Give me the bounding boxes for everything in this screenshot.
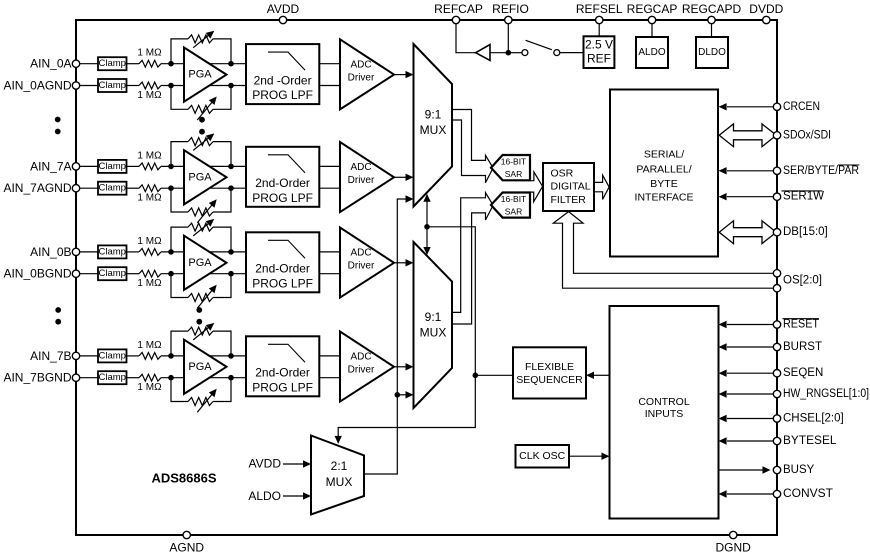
channel ellipsis dot	[199, 129, 205, 135]
junction PGA in+ ch A0	[168, 61, 174, 67]
pin DB[15:0]	[719, 221, 828, 244]
wire PGA input+ ch B0	[161, 251, 247, 253]
pin SEQEN	[719, 367, 824, 379]
wire AVDD to 2:1 MUX	[283, 460, 311, 467]
junction PGA in+ ch A7	[168, 164, 174, 170]
block FLEXIBLE SEQUENCER	[513, 347, 586, 398]
svg-text:1 MΩ: 1 MΩ	[137, 236, 162, 247]
svg-text:2nd-Order: 2nd-Order	[255, 366, 310, 380]
svg-text:16-BIT: 16-BIT	[501, 157, 527, 167]
svg-text:OS[2:0]: OS[2:0]	[783, 275, 822, 287]
svg-text:CONTROL: CONTROL	[638, 396, 689, 408]
svg-text:PGA: PGA	[188, 69, 212, 81]
variable gain arrow (bottom feedback) ch A7	[197, 199, 216, 223]
svg-text:1 MΩ: 1 MΩ	[137, 90, 162, 101]
wire inter-MUX select (double arrow)	[423, 194, 430, 255]
svg-text:CRCEN: CRCEN	[783, 101, 820, 113]
amplifier ADC Driver ch B7	[340, 332, 394, 402]
svg-text:2.5 V: 2.5 V	[585, 38, 613, 52]
svg-text:ADS8686S: ADS8686S	[151, 471, 216, 486]
svg-text:2:1: 2:1	[331, 459, 348, 473]
wire LPF to ADC driver + ch B0	[319, 251, 341, 253]
variable gain arrow (top feedback) ch A0	[193, 31, 214, 48]
svg-text:BYTESEL: BYTESEL	[783, 435, 837, 447]
svg-text:FLEXIBLE: FLEXIBLE	[525, 361, 574, 373]
amplifier ADC Driver ch A0	[340, 39, 394, 109]
junction PGA out- ch B0	[228, 271, 234, 277]
channel ellipsis dot	[196, 319, 202, 325]
svg-text:SAR: SAR	[505, 206, 522, 216]
svg-text:Clamp: Clamp	[98, 350, 125, 361]
svg-text:SEQUENCER: SEQUENCER	[516, 374, 583, 386]
svg-text:2nd-Order: 2nd-Order	[255, 176, 310, 190]
svg-text:ADC: ADC	[350, 248, 371, 259]
label ALDO input	[248, 489, 281, 503]
svg-text:SAR: SAR	[505, 169, 522, 179]
op-amp PGA ch B0	[184, 236, 227, 290]
wire PGA bottom feedback loop ch A0	[171, 86, 231, 114]
wire PGA top feedback loop ch A7	[171, 138, 231, 167]
filter 2nd-order PROG LPF ch B7	[246, 336, 319, 396]
svg-text:Clamp: Clamp	[98, 246, 125, 257]
regulator DLDO	[696, 37, 728, 68]
pin OS[2:0]	[773, 270, 822, 292]
wire ALDO to 2:1 MUX	[283, 492, 311, 499]
svg-text:RESET: RESET	[783, 319, 819, 331]
wire clamp to resistor (AIN_0AGND)	[127, 85, 140, 87]
wire REFCAP to reference buffer	[456, 20, 476, 53]
wire CONTROL INPUTS to FLEXIBLE SEQUENCER	[586, 372, 610, 379]
wire clamp to resistor (AIN_0B)	[127, 251, 140, 253]
buffer reference amplifier	[476, 45, 490, 61]
wire LPF to ADC driver - ch B7	[319, 377, 341, 379]
filter 2nd-order PROG LPF ch A7	[246, 147, 319, 207]
svg-text:PGA: PGA	[188, 257, 212, 269]
op-amp PGA ch B7	[184, 340, 227, 394]
resistor 1 MΩ (AIN_0AGND)	[139, 82, 161, 89]
resistor 1 MΩ (AIN_7BGND)	[139, 374, 161, 381]
label 1 MΩ (AIN_7A)	[137, 150, 162, 161]
svg-text:DLDO: DLDO	[698, 47, 726, 58]
svg-text:REFSEL: REFSEL	[576, 2, 623, 16]
pin AIN_0BGND	[3, 267, 79, 281]
wire MUX2 output bus line A	[452, 193, 493, 313]
junction PGA out+ ch B0	[228, 249, 234, 255]
wire select net to sequencer column	[335, 227, 476, 444]
op-amp PGA ch A0	[184, 48, 227, 102]
adc 16-BIT SAR (A)	[491, 155, 530, 180]
wire PGA input- ch B0	[161, 273, 247, 275]
filter OSR DIGITAL FILTER	[543, 163, 594, 211]
amplifier ADC Driver ch A7	[340, 142, 394, 212]
svg-text:ADC: ADC	[350, 352, 371, 363]
pin BYTESEL	[719, 435, 838, 447]
svg-text:Driver: Driver	[348, 175, 375, 186]
pin CONVST	[719, 488, 833, 500]
svg-text:INTERFACE: INTERFACE	[635, 192, 694, 204]
svg-text:SER/BYTE/PAR: SER/BYTE/PAR	[783, 165, 859, 177]
wire OS[2:0] bus to OSR filter (open up-arrow)	[553, 212, 777, 289]
svg-text:SDOx/SDI: SDOx/SDI	[783, 129, 831, 141]
svg-text:SEQEN: SEQEN	[783, 367, 823, 379]
svg-text:Clamp: Clamp	[98, 161, 125, 172]
svg-text:DB[15:0]: DB[15:0]	[783, 226, 828, 238]
svg-text:Clamp: Clamp	[98, 372, 125, 383]
wire clamp to resistor (AIN_0BGND)	[127, 273, 140, 275]
channel ellipsis dot	[55, 129, 61, 135]
svg-text:AIN_0BGND: AIN_0BGND	[3, 267, 71, 281]
resistor 1 MΩ (AIN_7B)	[139, 353, 161, 360]
wire AIN_0BGND pin to clamp	[76, 273, 98, 275]
svg-text:AIN_0B: AIN_0B	[30, 245, 71, 259]
variable gain arrow (bottom feedback) ch B7	[197, 389, 216, 413]
label 1 MΩ (AIN_7BGND)	[137, 382, 162, 393]
wire PGA input- ch B7	[161, 377, 247, 379]
wire AIN_0B pin to clamp	[76, 251, 98, 253]
wire PGA input+ ch B7	[161, 355, 247, 357]
wire MUX2 output bus line B	[452, 205, 493, 324]
label ADS8686S	[151, 471, 216, 486]
mux 9:1 MUX (A channels)	[414, 44, 453, 207]
chip boundary (ADS8686S outline)	[76, 20, 777, 535]
svg-text:Clamp: Clamp	[98, 58, 125, 69]
junction supply branch	[395, 392, 401, 398]
svg-text:AIN_7BGND: AIN_7BGND	[3, 371, 71, 385]
svg-text:CLK OSC: CLK OSC	[519, 450, 566, 462]
svg-text:ALDO: ALDO	[248, 489, 281, 503]
amplifier ADC Driver ch B0	[340, 228, 394, 298]
svg-text:PROG LPF: PROG LPF	[252, 380, 313, 394]
switch contact right	[554, 50, 560, 56]
junction PGA out+ ch A7	[228, 164, 234, 170]
wire REFIO node to switch	[508, 52, 522, 54]
wire PGA input+ ch A7	[161, 165, 247, 167]
resistor 1 MΩ (AIN_0BGND)	[139, 270, 161, 277]
channel ellipsis dot	[55, 117, 61, 123]
svg-text:PROG LPF: PROG LPF	[252, 276, 313, 290]
pin REFCAP	[434, 2, 483, 24]
filter 2nd-order PROG LPF ch A0	[246, 44, 319, 104]
channel ellipsis dot	[55, 307, 61, 313]
svg-text:AIN_7B: AIN_7B	[30, 349, 71, 363]
svg-text:PARALLEL/: PARALLEL/	[636, 164, 691, 176]
pin REFSEL	[576, 2, 623, 24]
pin CHSEL[2:0]	[719, 413, 844, 425]
junction PGA in+ ch B0	[168, 249, 174, 255]
pin REFIO	[492, 2, 529, 24]
svg-text:MUX: MUX	[420, 123, 447, 137]
label AVDD input	[249, 457, 282, 471]
svg-text:Driver: Driver	[348, 73, 375, 84]
wire ADC driver to MUX ch A0	[394, 71, 414, 78]
svg-text:SERIAL/: SERIAL/	[644, 148, 684, 160]
svg-text:9:1: 9:1	[425, 310, 442, 324]
wire PGA top feedback loop ch B7	[171, 327, 231, 356]
junction PGA out- ch A7	[228, 185, 234, 191]
svg-text:9:1: 9:1	[425, 108, 442, 122]
svg-text:Clamp: Clamp	[98, 268, 125, 279]
variable gain arrow (top feedback) ch A7	[193, 133, 214, 150]
regulator ALDO	[636, 37, 668, 68]
wire PGA input+ ch A0	[161, 63, 247, 65]
wire PGA input- ch A0	[161, 85, 247, 87]
svg-text:INPUTS: INPUTS	[645, 408, 684, 420]
node REFIO junction	[506, 50, 512, 56]
junction PGA in- ch A0	[168, 83, 174, 89]
wire AIN_7AGND pin to clamp	[76, 187, 98, 189]
svg-text:AVDD: AVDD	[267, 2, 300, 16]
svg-text:AIN_7A: AIN_7A	[30, 159, 71, 173]
variable gain arrow (bottom feedback) ch B0	[197, 285, 216, 309]
svg-text:AIN_0A: AIN_0A	[30, 57, 71, 71]
pin AIN_0B	[30, 245, 80, 259]
variable gain arrow (top feedback) ch B0	[193, 219, 214, 236]
wire supply branch to MUX2	[397, 391, 413, 398]
adc 16-BIT SAR (B)	[491, 193, 530, 218]
svg-text:2nd-Order: 2nd-Order	[255, 262, 310, 276]
wire buffer to REFIO node	[490, 52, 508, 54]
variable gain arrow (bottom feedback) ch A0	[197, 97, 216, 121]
wire CLK OSC to CONTROL INPUTS	[569, 453, 610, 460]
svg-text:ADC: ADC	[350, 162, 371, 173]
wire REGCAP stub	[651, 20, 653, 37]
resistor 1 MΩ (AIN_7A)	[139, 163, 161, 170]
junction PGA out+ ch B7	[228, 353, 234, 359]
wire REFSEL stub	[598, 20, 600, 36]
pin DVDD	[749, 2, 783, 24]
svg-text:REFIO: REFIO	[492, 2, 529, 16]
svg-text:HW_RNGSEL[1:0]: HW_RNGSEL[1:0]	[783, 388, 869, 400]
wire PGA top feedback loop ch A0	[171, 35, 231, 64]
svg-text:1 MΩ: 1 MΩ	[137, 48, 162, 59]
wire AIN_7BGND pin to clamp	[76, 377, 98, 379]
wire clamp to resistor (AIN_7BGND)	[127, 377, 140, 379]
svg-text:1 MΩ: 1 MΩ	[137, 382, 162, 393]
svg-text:MUX: MUX	[420, 326, 447, 340]
svg-text:AIN_0AGND: AIN_0AGND	[3, 79, 71, 93]
wire clamp to resistor (AIN_7B)	[127, 355, 140, 357]
pin DGND	[716, 531, 752, 554]
svg-text:1 MΩ: 1 MΩ	[137, 150, 162, 161]
wire PGA input- ch A7	[161, 187, 247, 189]
svg-text:16-BIT: 16-BIT	[501, 194, 527, 204]
label 1 MΩ (AIN_0BGND)	[137, 278, 162, 289]
wire LPF to ADC driver - ch A0	[319, 85, 341, 87]
switch contact left	[522, 50, 528, 56]
svg-text:ALDO: ALDO	[638, 47, 665, 58]
svg-text:BURST: BURST	[783, 341, 822, 353]
wire clamp to resistor (AIN_0A)	[127, 63, 140, 65]
pin REGCAP	[627, 2, 678, 24]
svg-text:FILTER: FILTER	[551, 194, 587, 206]
wire SAR outputs to OSR filter	[530, 172, 543, 202]
pin RESET	[719, 319, 819, 331]
junction inter-MUX select	[424, 224, 430, 230]
svg-text:DIGITAL: DIGITAL	[551, 181, 591, 193]
svg-text:DVDD: DVDD	[749, 2, 783, 16]
wire clamp to resistor (AIN_7A)	[127, 165, 140, 167]
channel ellipsis dot	[196, 307, 202, 313]
svg-text:PROG LPF: PROG LPF	[252, 191, 313, 205]
wire LPF to ADC driver + ch A0	[319, 63, 341, 65]
wire PGA bottom feedback loop ch B7	[171, 378, 231, 406]
svg-text:Driver: Driver	[348, 261, 375, 272]
label 1 MΩ (AIN_7AGND)	[137, 193, 162, 204]
label 1 MΩ (AIN_0B)	[137, 236, 162, 247]
svg-text:REF: REF	[587, 52, 611, 66]
clamp block (AIN_0BGND)	[98, 267, 127, 280]
wire ADC driver to MUX ch B0	[394, 259, 414, 266]
svg-text:ADC: ADC	[350, 59, 371, 70]
junction sequencer tap	[473, 373, 479, 379]
svg-text:REGCAPD: REGCAPD	[682, 2, 742, 16]
clamp block (AIN_0B)	[98, 245, 127, 258]
pin AIN_7BGND	[3, 371, 79, 385]
block CONTROL INPUTS	[610, 306, 719, 519]
junction PGA out+ ch A0	[228, 61, 234, 67]
wire LPF to ADC driver - ch A7	[319, 187, 341, 189]
svg-text:PGA: PGA	[188, 171, 212, 183]
svg-text:BUSY: BUSY	[783, 464, 815, 476]
clamp block (AIN_7AGND)	[98, 182, 127, 195]
wire REFIO stub	[507, 20, 509, 53]
pin AIN_7A	[30, 159, 80, 173]
svg-text:Clamp: Clamp	[98, 183, 125, 194]
svg-text:REFCAP: REFCAP	[434, 2, 483, 16]
svg-text:MUX: MUX	[326, 475, 353, 489]
svg-text:OSR: OSR	[551, 167, 574, 179]
wire AIN_7B pin to clamp	[76, 355, 98, 357]
wire 2:1 MUX output to channel MUXes	[364, 195, 414, 474]
mux 9:1 MUX (B channels)	[414, 242, 453, 408]
svg-text:REGCAP: REGCAP	[627, 2, 678, 16]
junction PGA in- ch B7	[168, 375, 174, 381]
wire sequencer tap to FLEXIBLE SEQUENCER	[475, 374, 513, 376]
resistor 1 MΩ (AIN_7AGND)	[139, 185, 161, 192]
switch REFSEL lever	[526, 40, 552, 49]
svg-text:SER1W: SER1W	[783, 191, 824, 203]
svg-text:DGND: DGND	[716, 541, 752, 555]
vref 2.5 V REF	[584, 36, 615, 68]
wire MUX1 output bus line A	[452, 110, 493, 169]
svg-text:2nd -Order: 2nd -Order	[254, 73, 312, 87]
wire PGA bottom feedback loop ch A7	[171, 188, 231, 216]
pin BUSY	[719, 464, 815, 476]
wire AIN_7A pin to clamp	[76, 165, 98, 167]
label 1 MΩ (AIN_0AGND)	[137, 90, 162, 101]
pin AVDD	[267, 2, 300, 24]
resistor 1 MΩ (AIN_0B)	[139, 249, 161, 256]
wire AIN_0AGND pin to clamp	[76, 85, 98, 87]
channel ellipsis dot	[199, 117, 205, 123]
svg-text:BYTE: BYTE	[650, 178, 677, 190]
label 1 MΩ (AIN_7B)	[137, 340, 162, 351]
clamp block (AIN_7A)	[98, 160, 127, 173]
junction PGA in- ch A7	[168, 185, 174, 191]
wire REGCAPD stub	[711, 20, 713, 37]
svg-text:Driver: Driver	[348, 365, 375, 376]
svg-text:AIN_7AGND: AIN_7AGND	[3, 181, 71, 195]
pin CRCEN	[719, 101, 820, 113]
pin AIN_0A	[30, 57, 80, 71]
pin AIN_0AGND	[3, 79, 79, 93]
svg-text:PROG LPF: PROG LPF	[252, 88, 313, 102]
wire OSR filter to serial interface	[594, 175, 609, 199]
pin BURST	[719, 341, 822, 353]
variable gain arrow (top feedback) ch B7	[193, 323, 214, 340]
wire LPF to ADC driver - ch B0	[319, 273, 341, 275]
svg-text:1 MΩ: 1 MΩ	[137, 340, 162, 351]
svg-text:1 MΩ: 1 MΩ	[137, 193, 162, 204]
wire MUX1 output bus line B	[452, 120, 493, 183]
mux 2:1 MUX	[311, 436, 364, 515]
pin HW_RNGSEL[1:0]	[719, 388, 869, 400]
junction PGA out- ch B7	[228, 375, 234, 381]
wire PGA top feedback loop ch B0	[171, 223, 231, 252]
svg-text:CONVST: CONVST	[783, 488, 833, 500]
junction PGA in+ ch B7	[168, 353, 174, 359]
pin SER/BYTE/PAR	[719, 165, 860, 177]
channel ellipsis dot	[55, 319, 61, 325]
block SERIAL/PARALLEL/BYTE INTERFACE	[610, 90, 718, 257]
wire PGA bottom feedback loop ch B0	[171, 274, 231, 302]
resistor 1 MΩ (AIN_0A)	[139, 60, 161, 67]
clamp block (AIN_7B)	[98, 349, 127, 362]
label 1 MΩ (AIN_0A)	[137, 48, 162, 59]
oscillator CLK OSC	[516, 445, 570, 468]
pin AGND	[169, 531, 204, 554]
svg-text:PGA: PGA	[188, 361, 212, 373]
wire switch to 2.5V REF	[560, 52, 584, 54]
clamp block (AIN_0AGND)	[98, 79, 127, 92]
pin SER1W	[719, 191, 825, 203]
junction PGA in- ch B0	[168, 271, 174, 277]
junction PGA out- ch A0	[228, 83, 234, 89]
pin REGCAPD	[682, 2, 742, 24]
clamp block (AIN_0A)	[98, 57, 127, 70]
pin AIN_7AGND	[3, 181, 79, 195]
svg-text:1 MΩ: 1 MΩ	[137, 278, 162, 289]
wire ADC driver to MUX ch B7	[394, 363, 414, 370]
filter 2nd-order PROG LPF ch B0	[246, 232, 319, 292]
svg-text:Clamp: Clamp	[98, 80, 125, 91]
pin AIN_7B	[30, 349, 80, 363]
svg-text:AVDD: AVDD	[249, 457, 282, 471]
wire clamp to resistor (AIN_7AGND)	[127, 187, 140, 189]
wire LPF to ADC driver + ch B7	[319, 355, 341, 357]
pin SDOx/SDI	[719, 124, 831, 147]
wire AIN_0A pin to clamp	[76, 63, 98, 65]
wire LPF to ADC driver + ch A7	[319, 165, 341, 167]
op-amp PGA ch A7	[184, 150, 227, 204]
wire ADC driver to MUX ch A7	[394, 174, 414, 181]
svg-text:AGND: AGND	[169, 541, 204, 555]
svg-text:CHSEL[2:0]: CHSEL[2:0]	[783, 413, 844, 425]
clamp block (AIN_7BGND)	[98, 371, 127, 384]
